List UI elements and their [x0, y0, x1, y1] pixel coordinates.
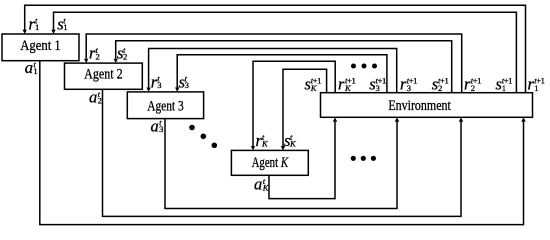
wire a2: Agent 2 bottom, down, right, up into environment bottom	[103, 89, 464, 216]
wire aK: Agent K bottom, down, right, up into environment bottom	[269, 117, 337, 198]
ellipsis dots horizontal below environment right of Agent K	[351, 156, 376, 161]
svg-text:1: 1	[502, 83, 506, 93]
svg-text:Agent 2: Agent 2	[84, 67, 123, 83]
label r1t	[29, 14, 40, 33]
svg-text:a: a	[89, 88, 97, 107]
svg-text:3: 3	[157, 80, 161, 90]
svg-text:1: 1	[534, 83, 538, 93]
label sKt	[284, 131, 297, 150]
svg-text:Agent K: Agent K	[252, 155, 289, 171]
agent box Agent 3	[127, 92, 203, 119]
label r3 t+1	[400, 74, 417, 93]
agent box Agent 1	[2, 34, 79, 61]
label rK t+1	[338, 74, 355, 93]
agent box Agent K	[231, 150, 308, 175]
wire a1: Agent 1 bottom, down, right, up into environment bottom	[40, 61, 526, 225]
svg-text:3: 3	[407, 83, 411, 93]
label a2t	[89, 88, 102, 107]
wire r2: environment top riser, across, down into Agent 2	[84, 34, 462, 93]
svg-text:3: 3	[376, 83, 380, 93]
wire r3: environment top riser, across, down into Agent 3	[146, 49, 396, 93]
label s2t	[117, 44, 127, 63]
wire sK: environment top riser, across, down into Agent K	[281, 69, 327, 150]
svg-text:a: a	[25, 58, 33, 77]
svg-text:2: 2	[123, 51, 127, 61]
svg-text:a: a	[151, 116, 159, 135]
label a1t	[25, 58, 38, 77]
label r3t	[151, 72, 162, 91]
svg-text:1: 1	[63, 22, 67, 32]
svg-text:a: a	[254, 175, 262, 194]
svg-text:3: 3	[185, 80, 189, 90]
label r1 t+1	[528, 74, 545, 93]
label s2 t+1	[432, 74, 449, 93]
svg-text:2: 2	[471, 83, 475, 93]
wire a3: Agent 3 bottom, down, right, up into environment bottom	[165, 117, 399, 208]
environment box	[321, 93, 533, 118]
wire r1: environment top riser, across, down into Agent 1	[23, 5, 526, 92]
svg-text:1: 1	[35, 22, 39, 32]
label s1 t+1	[496, 74, 513, 93]
label sK t+1	[305, 74, 322, 93]
svg-text:3: 3	[159, 124, 163, 134]
label r2 t+1	[464, 74, 481, 93]
ellipsis dots horizontal above environment	[351, 64, 377, 69]
wire s2: environment top riser, across, down into Agent 2	[114, 41, 452, 93]
svg-text:2: 2	[438, 83, 442, 93]
label s3 t+1	[369, 74, 386, 93]
wire rK: environment top riser, across, down into Agent K	[251, 61, 335, 150]
ellipsis dots diagonal between Agent 3 and Agent K	[189, 125, 217, 148]
svg-text:Agent 1: Agent 1	[20, 38, 61, 54]
label r2t	[89, 44, 100, 63]
label rKt	[256, 131, 270, 150]
label s1t	[57, 14, 67, 33]
svg-text:Agent 3: Agent 3	[147, 99, 184, 115]
svg-text:Environment: Environment	[388, 98, 451, 114]
wire s3: environment top riser, across, down into Agent 3	[175, 55, 387, 93]
agent box Agent 2	[65, 63, 143, 89]
svg-text:2: 2	[98, 95, 102, 105]
wire s1: environment top riser, across, down into Agent 1	[51, 12, 516, 93]
label a3t	[151, 116, 164, 135]
svg-text:1: 1	[33, 66, 37, 76]
svg-text:r: r	[338, 74, 345, 93]
label aKt	[254, 175, 270, 194]
svg-text:2: 2	[96, 51, 100, 61]
label s3t	[179, 72, 189, 91]
